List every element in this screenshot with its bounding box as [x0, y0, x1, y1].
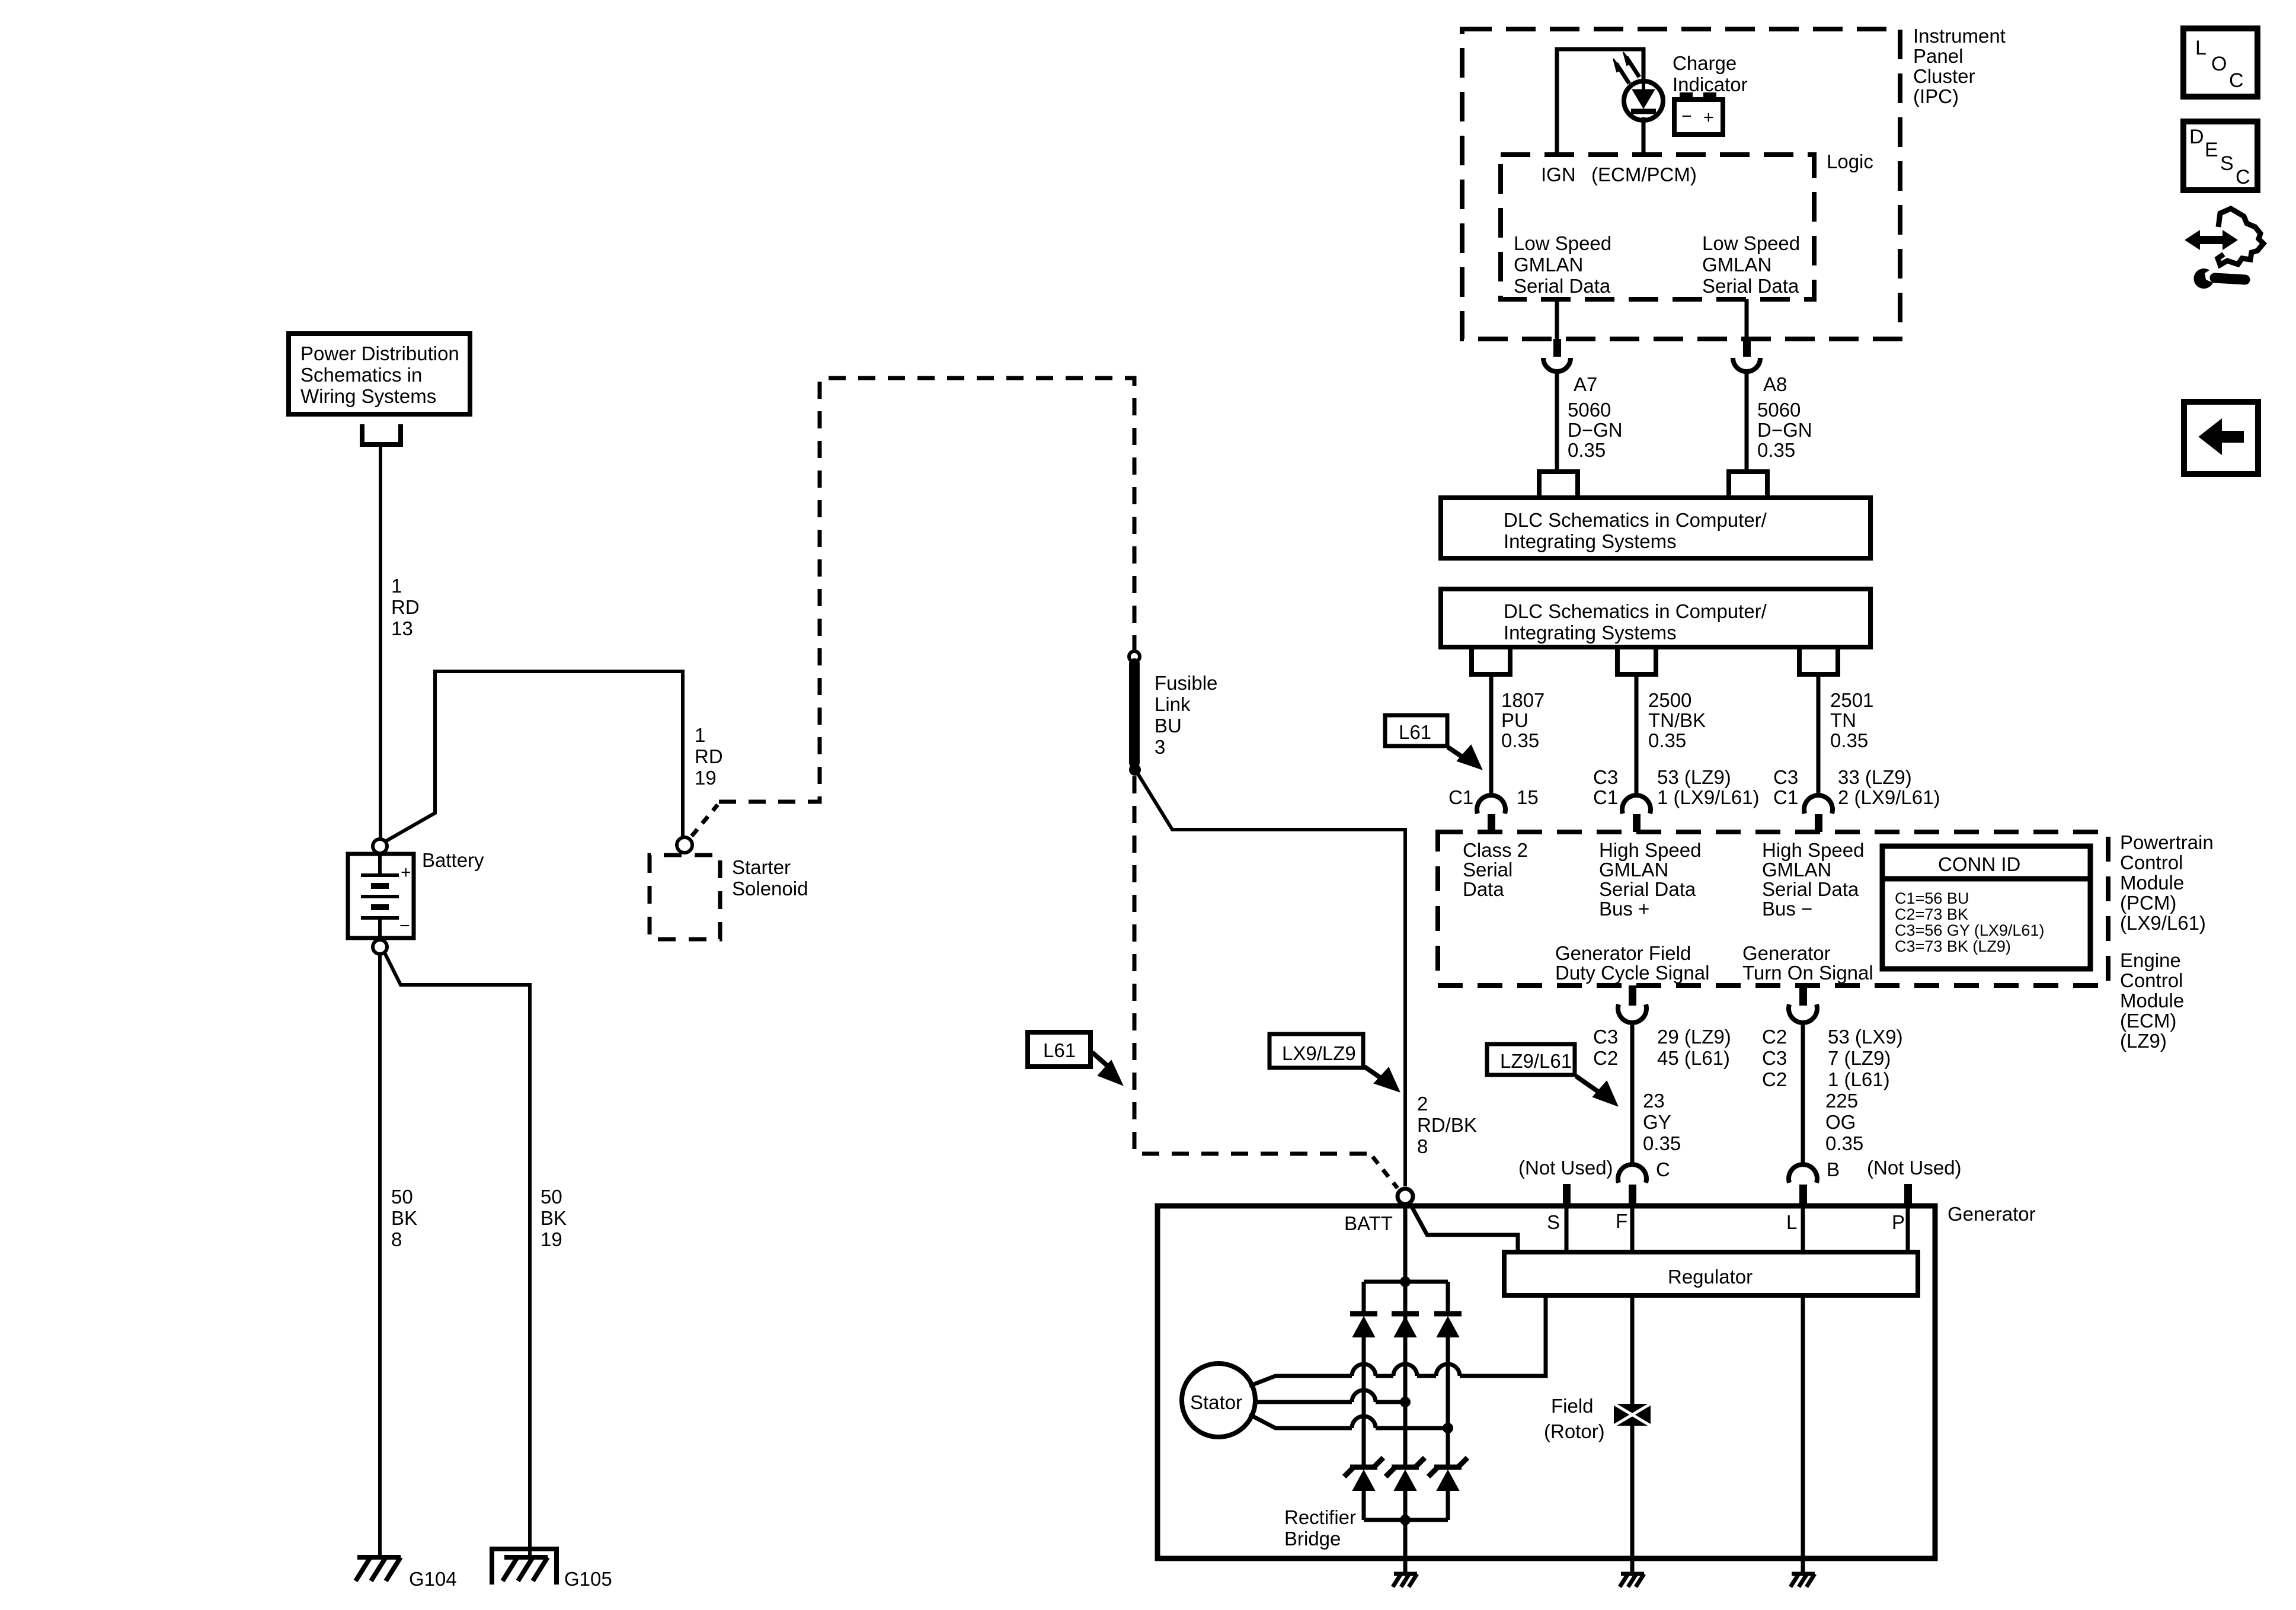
svg-text:2: 2: [1417, 1093, 1428, 1115]
svg-text:GMLAN: GMLAN: [1702, 254, 1771, 276]
svg-text:1: 1: [695, 724, 705, 746]
svg-text:Low Speed: Low Speed: [1514, 232, 1611, 254]
svg-text:2 (LX9/L61): 2 (LX9/L61): [1838, 786, 1940, 808]
svg-text:L61: L61: [1043, 1039, 1076, 1061]
upper diode column 3: [1434, 1282, 1462, 1467]
svg-text:3: 3: [1155, 736, 1165, 758]
svg-text:P: P: [1892, 1211, 1905, 1233]
svg-text:Serial Data: Serial Data: [1599, 878, 1696, 900]
svg-text:0.35: 0.35: [1757, 439, 1795, 461]
svg-text:2501: 2501: [1830, 689, 1873, 711]
stator phase wire 3 (to diode column 3): [1249, 1414, 1352, 1428]
svg-text:5060: 5060: [1568, 399, 1611, 421]
wire BATT vertical into rectifier: [1403, 1202, 1408, 1337]
svg-text:−: −: [399, 916, 410, 936]
regulator box: [1504, 1252, 1918, 1295]
svg-text:(LZ9): (LZ9): [2120, 1030, 2167, 1052]
icon LOC: [2183, 28, 2257, 97]
svg-text:BU: BU: [1155, 715, 1182, 737]
junction: BATT wire / rectifier top rail: [1400, 1276, 1411, 1287]
svg-text:(Rotor): (Rotor): [1544, 1420, 1605, 1442]
svg-text:PU: PU: [1501, 709, 1528, 731]
wire BATT node to regulator: [1409, 1202, 1518, 1251]
svg-text:0.35: 0.35: [1643, 1132, 1681, 1154]
svg-text:Generator: Generator: [1742, 942, 1831, 964]
stator phase wire 2 (to diode column 2): [1255, 1400, 1352, 1404]
battery B1: [348, 854, 414, 938]
label LX9/LZ9: [1269, 1034, 1399, 1092]
svg-text:0.35: 0.35: [1830, 729, 1868, 751]
Power Distribution reference box: [289, 334, 470, 414]
svg-text:53 (LX9): 53 (LX9): [1828, 1026, 1903, 1048]
svg-text:Battery: Battery: [422, 849, 484, 871]
DLC schematics box 2: [1441, 589, 1870, 647]
svg-text:Wiring Systems: Wiring Systems: [300, 385, 436, 407]
svg-text:C2=73 BK: C2=73 BK: [1895, 905, 1968, 923]
rectifier bottom rail: [1364, 1518, 1448, 1522]
svg-text:C: C: [2229, 69, 2244, 92]
svg-text:Indicator: Indicator: [1673, 73, 1748, 95]
svg-text:RD/BK: RD/BK: [1417, 1114, 1477, 1136]
svg-text:G104: G104: [409, 1568, 457, 1590]
connector A8 (cup): [1733, 358, 1760, 372]
svg-text:(ECM/PCM): (ECM/PCM): [1591, 164, 1697, 185]
svg-text:8: 8: [391, 1228, 402, 1250]
svg-text:+: +: [401, 863, 411, 882]
connector C3/C1 at PCM (wire 3): [1804, 795, 1833, 814]
upper diode column 2: [1392, 1314, 1419, 1467]
svg-text:C: C: [2236, 166, 2250, 188]
node battery positive: [373, 839, 387, 853]
svg-text:TN: TN: [1830, 709, 1856, 731]
DLC schematics box 1: [1441, 498, 1870, 558]
svg-text:GMLAN: GMLAN: [1514, 254, 1583, 276]
terminal L: [1801, 1206, 1805, 1251]
svg-text:0.35: 0.35: [1568, 439, 1606, 461]
svg-text:Module: Module: [2120, 990, 2184, 1012]
wire rectifier to ground: [1403, 1520, 1408, 1574]
svg-text:Bus +: Bus +: [1599, 898, 1649, 920]
svg-text:Field: Field: [1551, 1395, 1594, 1417]
wire 1 RD 19 (battery to starter solenoid): [385, 671, 683, 841]
svg-text:Turn On Signal: Turn On Signal: [1742, 962, 1873, 984]
icon wiring repair (arrow + wrench): [2185, 209, 2263, 289]
ground (rectifier): [1393, 1574, 1417, 1587]
label L61 (top): [1385, 715, 1482, 769]
stator: [1182, 1363, 1255, 1437]
svg-text:(IPC): (IPC): [1913, 85, 1959, 107]
svg-text:15: 15: [1517, 786, 1539, 808]
svg-text:L: L: [1786, 1211, 1797, 1233]
terminal bracket below power distribution box: [362, 424, 401, 444]
ground (L circuit): [1790, 1574, 1815, 1587]
svg-text:G105: G105: [564, 1568, 612, 1590]
dashed wire: fusible link to BATT node (L61): [1134, 776, 1398, 1188]
connector C3/C1 at PCM (wire 2): [1622, 795, 1651, 814]
svg-text:High Speed: High Speed: [1599, 839, 1701, 861]
svg-text:C2: C2: [1762, 1026, 1787, 1048]
svg-text:D−GN: D−GN: [1568, 419, 1623, 441]
junction: phase 2 / diode column 2: [1400, 1397, 1411, 1407]
svg-text:Data: Data: [1463, 878, 1504, 900]
svg-text:−: −: [1681, 107, 1692, 126]
junction: phase 3 / diode column 3: [1443, 1423, 1453, 1433]
charge indicator LED: [1613, 52, 1663, 120]
svg-text:(Not Used): (Not Used): [1518, 1157, 1613, 1179]
svg-text:Solenoid: Solenoid: [732, 878, 808, 900]
svg-text:GMLAN: GMLAN: [1762, 859, 1831, 881]
CONN ID table: [1882, 846, 2090, 969]
svg-text:50: 50: [541, 1186, 562, 1208]
svg-text:DLC Schematics in Computer/: DLC Schematics in Computer/: [1504, 600, 1767, 622]
ground G105 with splice bracket: [492, 1549, 557, 1585]
svg-text:D−GN: D−GN: [1757, 419, 1812, 441]
starter solenoid terminal node: [677, 837, 692, 853]
connector C1 15 at PCM: [1477, 795, 1505, 814]
svg-text:C3: C3: [1773, 766, 1798, 788]
svg-text:BATT: BATT: [1344, 1212, 1393, 1234]
svg-text:Logic: Logic: [1827, 151, 1873, 172]
svg-text:L: L: [2195, 37, 2207, 59]
svg-text:(Not Used): (Not Used): [1867, 1157, 1962, 1179]
svg-text:BK: BK: [541, 1207, 567, 1229]
connector below PCM (generator field wire): [1629, 985, 1636, 1006]
svg-text:Schematics in: Schematics in: [300, 364, 422, 386]
svg-text:Integrating Systems: Integrating Systems: [1504, 622, 1677, 644]
upper diode column 1: [1350, 1282, 1377, 1467]
svg-text:Serial Data: Serial Data: [1702, 275, 1799, 297]
charge indicator battery pictograph: [1674, 92, 1723, 135]
svg-text:D: D: [2189, 126, 2204, 148]
lower diode column 1 (avalanche): [1344, 1458, 1383, 1520]
svg-text:Fusible: Fusible: [1155, 672, 1217, 694]
icon DESC: [2183, 121, 2257, 190]
svg-text:C3: C3: [1762, 1047, 1787, 1069]
svg-text:(ECM): (ECM): [2120, 1010, 2176, 1032]
ground G104: [356, 1557, 401, 1581]
svg-text:O: O: [2211, 53, 2227, 75]
svg-text:Serial Data: Serial Data: [1762, 878, 1859, 900]
svg-text:C1: C1: [1773, 786, 1798, 808]
svg-text:S: S: [2220, 152, 2234, 175]
svg-text:(LX9/L61): (LX9/L61): [2120, 912, 2206, 934]
svg-text:TN/BK: TN/BK: [1648, 709, 1706, 731]
svg-text:Instrument: Instrument: [1913, 25, 2006, 47]
terminal P: [1906, 1206, 1910, 1251]
wire A8 5060 D-GN 0.35: [1745, 299, 1749, 339]
svg-text:Low Speed: Low Speed: [1702, 232, 1800, 254]
svg-text:High Speed: High Speed: [1762, 839, 1864, 861]
svg-text:C3: C3: [1593, 766, 1618, 788]
svg-text:C1=56 BU: C1=56 BU: [1895, 889, 1969, 907]
svg-text:Control: Control: [2120, 969, 2183, 991]
svg-text:13: 13: [391, 617, 413, 639]
PCM/ECM dashed box: [1438, 832, 2108, 985]
stator phase wire 1 (to regulator): [1249, 1376, 1352, 1386]
svg-text:LZ9/L61: LZ9/L61: [1500, 1050, 1572, 1072]
wire 225 OG 0.35: [1801, 1023, 1805, 1166]
svg-text:Cluster: Cluster: [1913, 65, 1975, 87]
svg-text:0.35: 0.35: [1825, 1132, 1863, 1154]
svg-text:S: S: [1547, 1211, 1560, 1233]
svg-text:7 (LZ9): 7 (LZ9): [1828, 1047, 1891, 1069]
svg-text:GMLAN: GMLAN: [1599, 859, 1668, 881]
svg-text:Generator: Generator: [1948, 1203, 2036, 1225]
fusible link BU 3: [1129, 651, 1140, 774]
svg-text:Regulator: Regulator: [1668, 1266, 1753, 1288]
svg-text:C2: C2: [1762, 1068, 1787, 1090]
svg-text:RD: RD: [391, 596, 420, 618]
wire 1 RD 13 (battery positive feed): [379, 444, 382, 839]
svg-text:Link: Link: [1155, 693, 1191, 715]
connector B at generator L: [1789, 1164, 1817, 1183]
svg-text:F: F: [1616, 1210, 1627, 1232]
logic dashed box: [1501, 155, 1814, 299]
svg-text:C2: C2: [1593, 1047, 1618, 1069]
svg-text:19: 19: [695, 767, 717, 789]
svg-text:29 (LZ9): 29 (LZ9): [1657, 1026, 1731, 1048]
junction: rectifier bottom rail / ground wire: [1400, 1515, 1411, 1525]
svg-text:C3: C3: [1593, 1026, 1618, 1048]
svg-text:C1: C1: [1448, 786, 1473, 808]
svg-text:Duty Cycle Signal: Duty Cycle Signal: [1555, 962, 1709, 984]
terminal bracket at DLC box 1 (A8): [1729, 472, 1767, 497]
svg-text:8: 8: [1417, 1135, 1428, 1157]
wire regulator to field: [1630, 1294, 1635, 1404]
node battery negative: [373, 940, 387, 954]
svg-text:Bus −: Bus −: [1762, 898, 1812, 920]
svg-text:A8: A8: [1763, 373, 1787, 395]
svg-text:LX9/LZ9: LX9/LZ9: [1282, 1042, 1356, 1064]
svg-text:1 (L61): 1 (L61): [1828, 1068, 1890, 1090]
connector C at generator F: [1618, 1164, 1646, 1183]
wire 23 GY 0.35: [1630, 1023, 1635, 1166]
svg-text:A7: A7: [1574, 373, 1597, 395]
lower diode column 3 (avalanche): [1428, 1458, 1467, 1520]
connector below PCM (generator turn on wire): [1799, 985, 1807, 1006]
svg-text:33 (LZ9): 33 (LZ9): [1838, 766, 1912, 788]
svg-text:RD: RD: [695, 745, 723, 767]
svg-text:L61: L61: [1399, 721, 1431, 743]
svg-text:Integrating Systems: Integrating Systems: [1504, 530, 1677, 552]
lower diode column 2 (avalanche): [1386, 1458, 1425, 1520]
wire 50 BK 19 (battery negative to G105): [385, 953, 530, 1557]
svg-text:19: 19: [541, 1228, 562, 1250]
svg-text:Module: Module: [2120, 872, 2184, 894]
icon back arrow: [2184, 402, 2258, 474]
svg-text:2500: 2500: [1648, 689, 1691, 711]
terminal S: [1565, 1206, 1569, 1251]
ground (field): [1620, 1574, 1644, 1587]
wire regulator L to ground: [1801, 1294, 1805, 1574]
svg-text:23: 23: [1643, 1090, 1665, 1112]
svg-text:5060: 5060: [1757, 399, 1801, 421]
svg-text:1807: 1807: [1501, 689, 1544, 711]
wire 1807 PU 0.35: [1489, 674, 1494, 797]
svg-text:0.35: 0.35: [1501, 729, 1539, 751]
instrument panel cluster IPC dashed box: [1462, 29, 1900, 339]
svg-text:GY: GY: [1643, 1111, 1671, 1133]
generator box: [1157, 1206, 1935, 1558]
svg-text:50: 50: [391, 1186, 413, 1208]
svg-text:Bridge: Bridge: [1284, 1528, 1341, 1550]
svg-text:Powertrain: Powertrain: [2120, 831, 2214, 853]
svg-text:Control: Control: [2120, 852, 2183, 873]
svg-text:225: 225: [1825, 1090, 1858, 1112]
wire A7 5060 D-GN 0.35: [1555, 299, 1559, 339]
svg-text:53 (LZ9): 53 (LZ9): [1657, 766, 1731, 788]
wire field to ground: [1630, 1426, 1635, 1574]
svg-text:Class 2: Class 2: [1463, 839, 1528, 861]
label L61 (left): [1028, 1032, 1123, 1085]
svg-text:IGN: IGN: [1541, 164, 1576, 185]
field rotor winding: [1614, 1404, 1651, 1426]
svg-text:BK: BK: [391, 1207, 417, 1229]
wire: charge indicator loop: [1557, 49, 1643, 155]
svg-text:Starter: Starter: [732, 856, 791, 878]
connector A7 (cup): [1543, 358, 1571, 372]
svg-text:C3=56 GY (LX9/L61): C3=56 GY (LX9/L61): [1895, 921, 2044, 939]
svg-text:OG: OG: [1825, 1111, 1856, 1133]
wire 2 RD/BK 8 (fusible link to generator BATT): [1138, 774, 1405, 1186]
terminal bracket below DLC box 2 (wire 2): [1617, 647, 1656, 674]
svg-text:(PCM): (PCM): [2120, 892, 2176, 914]
svg-text:Rectifier: Rectifier: [1284, 1506, 1356, 1528]
wire 2501 TN 0.35: [1817, 674, 1821, 797]
svg-text:C3=73 BK (LZ9): C3=73 BK (LZ9): [1895, 937, 2011, 955]
svg-text:Charge: Charge: [1673, 52, 1737, 74]
terminal bracket below DLC box 2 (wire 1): [1472, 647, 1510, 674]
svg-text:0.35: 0.35: [1648, 729, 1686, 751]
svg-text:C1: C1: [1593, 786, 1618, 808]
wire 2500 TN/BK 0.35: [1635, 674, 1639, 797]
svg-text:1 (LX9/L61): 1 (LX9/L61): [1657, 786, 1759, 808]
terminal bracket at DLC box 1 (A7): [1539, 472, 1578, 497]
wire 50 BK 8 (battery negative to G104): [378, 954, 382, 1557]
terminal F: [1630, 1206, 1635, 1251]
svg-text:C: C: [1656, 1158, 1670, 1180]
svg-text:Serial: Serial: [1463, 859, 1512, 881]
svg-text:1: 1: [391, 575, 402, 597]
starter solenoid dashed box: [650, 855, 720, 939]
svg-text:Panel: Panel: [1913, 45, 1963, 67]
svg-text:Serial Data: Serial Data: [1514, 275, 1611, 297]
svg-text:Power Distribution: Power Distribution: [300, 343, 459, 364]
rectifier top rail: [1364, 1280, 1448, 1284]
label LZ9/L61: [1487, 1044, 1617, 1106]
svg-text:CONN ID: CONN ID: [1938, 853, 2020, 875]
svg-text:+: +: [1703, 108, 1714, 127]
BATT node on generator: [1398, 1189, 1413, 1204]
dashed wire: solenoid to fusible link: [692, 805, 718, 836]
svg-text:B: B: [1827, 1158, 1840, 1180]
svg-text:Generator Field: Generator Field: [1555, 942, 1691, 964]
svg-text:Engine: Engine: [2120, 949, 2181, 971]
svg-text:45 (L61): 45 (L61): [1657, 1047, 1730, 1069]
svg-text:DLC Schematics in Computer/: DLC Schematics in Computer/: [1504, 509, 1767, 531]
terminal bracket below DLC box 2 (wire 3): [1799, 647, 1838, 674]
svg-text:Stator: Stator: [1190, 1391, 1242, 1413]
svg-text:E: E: [2205, 139, 2218, 161]
